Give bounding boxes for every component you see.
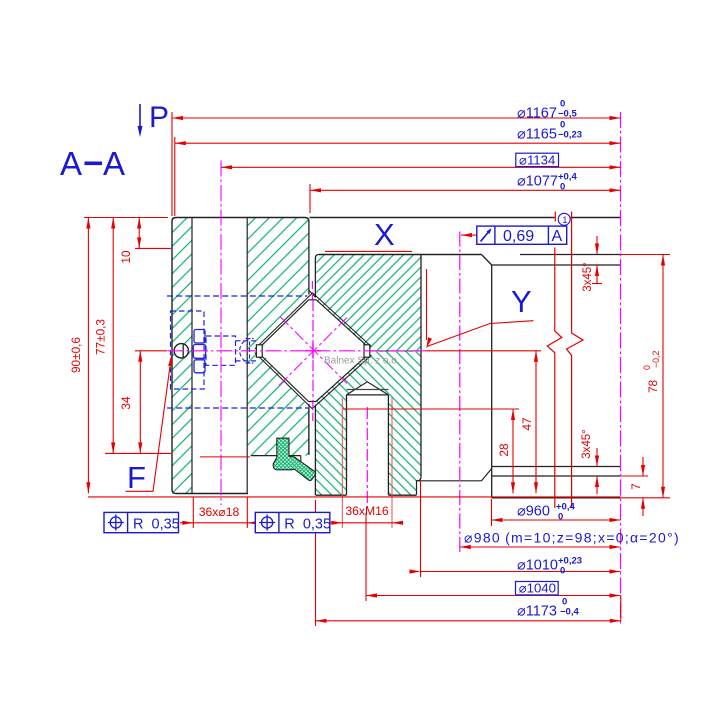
raceway line upper-right [312,293,371,347]
gear rim bottom face [492,497,621,499]
diameter reference centerline right [620,112,622,625]
extension line centerline left [135,350,167,352]
dimension line d1134 [221,166,621,168]
outer ring top face step [319,254,482,256]
svg-text:0,69: 0,69 [503,228,534,245]
M16 hole drill cone [347,382,389,395]
extension line outer ring left edge down [315,500,317,626]
svg-text:−0,4: −0,4 [560,607,579,618]
dimension line d1010 [421,571,621,573]
svg-text:3x45°: 3x45° [581,429,593,459]
roller axis diagonal NE [279,318,347,386]
svg-text:0: 0 [560,182,565,193]
hidden bolt shank bottom line [236,360,259,362]
balloon leader tick [554,212,556,222]
raceway line lower-left [255,353,313,410]
extension lines bolt hole down [192,497,194,528]
M16 thread major line right [391,398,393,528]
runout frame [477,226,567,244]
hidden counterbore line lower [167,407,309,409]
extension line M16 BCD [365,513,367,601]
dimension line 77 [112,218,114,454]
extension line seal OD up [174,137,176,216]
dimension line d960 [492,519,621,521]
svg-text:⌀1077: ⌀1077 [517,174,558,190]
svg-text:⌀980 (m=10;z=98;x=0;α=20°): ⌀980 (m=10;z=98;x=0;α=20°) [464,530,680,546]
leader X underline [325,250,412,252]
balloon item 1 [558,213,570,225]
svg-text:P: P [149,101,169,134]
seal elastomer body [273,438,315,480]
M16 hole wall right [387,395,389,495]
M16 hole chamfer line [347,389,389,391]
grease fitting hex middle (blue) [193,345,205,359]
dimension 3x45 top arrows [596,236,598,255]
svg-text:A: A [60,145,82,182]
svg-text:0: 0 [560,566,565,577]
dimension line d1040 [366,595,621,597]
gear tooth chamfer bottom line [492,475,621,477]
dimension line 36xd18 [180,522,255,524]
svg-text:1: 1 [562,215,567,226]
extension line root circle [491,499,493,526]
roller vertical centerline [312,300,314,402]
svg-text:Y: Y [511,284,532,319]
svg-text:−0,5: −0,5 [558,109,577,120]
inner ring bottom-left corner [172,490,176,494]
position frame left [104,512,179,532]
svg-text:47: 47 [520,417,534,430]
bolt hole wall left [191,218,193,494]
outer ring right edge [420,255,422,477]
hidden bolt shank end line [249,342,251,361]
hidden plug hole arc [240,339,251,364]
outer ring split line [370,350,421,352]
recess bottom line [417,480,482,482]
dimension line d1173 [316,620,621,622]
outer ring left edge lower [314,405,316,496]
svg-text:A: A [103,145,125,182]
roller face upper-left [262,300,309,345]
bottom reference line [88,496,621,498]
hidden counterbore line upper [167,295,308,297]
svg-text:⌀1010: ⌀1010 [517,558,558,574]
M16 hole centerline [366,407,368,508]
raceway line upper-left [255,293,313,349]
svg-text:34: 34 [119,396,133,410]
dimension line d1167 [172,117,621,119]
svg-text:X: X [374,217,395,252]
gear pitch line centerline [459,232,461,553]
roller center mark [305,343,321,359]
extension line step 10 [135,247,171,249]
grease fitting ball [174,344,188,358]
gear rim upper step line right segment [520,254,621,256]
svg-text:0: 0 [558,512,563,523]
leader Y [427,321,534,347]
hidden bolt head rectangle [206,336,236,365]
inner ring right edge lower [308,408,310,455]
roller vertical centerline above [311,281,313,300]
svg-text:36xM16: 36xM16 [345,504,389,518]
dimension 7 arrows [642,457,644,476]
svg-text:⌀1173: ⌀1173 [517,604,557,620]
label d1040 boxed [516,582,559,595]
extension line left face up [171,112,173,216]
hidden spotface rectangle [171,311,205,389]
outer ring upper half hatch [315,255,421,352]
upper ring gap step tick [309,291,315,297]
dimension line 90 [87,218,89,494]
svg-text:⌀1134: ⌀1134 [519,152,555,167]
grease fitting hex upper (blue) [194,330,205,344]
dimension line 34 [139,351,141,454]
M16 thread major line left [341,398,343,528]
dimension 10 arrows [138,218,140,249]
break line left [547,248,562,509]
dimension line d1165 [175,142,621,144]
svg-text:R 0,35: R 0,35 [284,516,331,532]
svg-text:−0,23: −0,23 [558,130,582,141]
outer ring lower half hatch [313,352,421,495]
gear rim foot chamfer [482,469,492,481]
hidden bolt shank top line [236,340,259,342]
main horizontal centerline [168,350,426,352]
svg-text:⌀1165: ⌀1165 [517,127,557,143]
gear tooth chamfer top line [492,466,621,468]
hidden plug hole ticks [246,339,254,364]
position frame right [255,512,329,532]
dimension line d980 [460,546,621,548]
extension line gear top right [621,254,670,256]
svg-text:Balnex Sp. z o.o.: Balnex Sp. z o.o. [324,356,400,367]
inner ring right hatch band with raceway V-groove [247,218,309,456]
label d1134 boxed [516,153,559,166]
outer ring left edge upper [314,258,316,298]
extension line tip circle [420,481,422,577]
outer ring bottom-right corner step [417,477,422,495]
outer ring top-left corner [315,255,319,259]
extension line centerline right [426,350,542,352]
grease fitting stem line [182,344,184,358]
dimension 3x45 bottom arrows [596,448,598,467]
svg-text:A: A [552,228,563,245]
extension line tooth chamfer right [621,475,648,477]
extension line seal area [200,456,250,458]
roller right corner plug [364,345,370,357]
seal groove right wall [300,456,302,469]
roller vertical centerline below [312,402,314,422]
svg-text:⌀960: ⌀960 [517,504,550,520]
extension line gear bottom right [621,497,670,499]
break line right [567,212,584,509]
M16 hole wall left [346,395,348,495]
M16 hole void [347,382,389,495]
svg-text:⌀1167: ⌀1167 [517,106,557,122]
dimension line 78 [662,255,664,498]
outer ring bottom face [316,494,417,496]
svg-text:36x⌀18: 36x⌀18 [199,505,240,519]
dimension line 28 [512,409,514,493]
leader F [126,358,172,492]
raceway line lower-right [312,355,371,409]
roller face lower-left [262,357,308,402]
gear rim left edge [491,265,493,498]
roller face lower-right [316,357,366,402]
inner ring top corners [172,218,309,222]
bolt hole wall right [246,218,248,494]
gear rim shoulder line [492,264,621,266]
leader runout frame [461,234,477,236]
datum arrow P [139,104,141,128]
svg-text:28: 28 [497,443,511,457]
svg-text:78: 78 [646,379,660,393]
svg-text:77±0,3: 77±0,3 [94,319,108,355]
M16 hole cone base line [347,394,389,396]
roller corner flat bottom [309,401,317,403]
extension tail Y vertical [426,269,428,340]
inner ring bottom face [176,493,248,495]
svg-text:−0,2: −0,2 [651,351,661,368]
svg-text:F: F [127,460,146,495]
gear rim top face line [310,217,621,219]
extension line top face left [84,217,168,219]
lower ring gap wall left [308,404,310,455]
dimension line d1077 [310,189,621,191]
svg-text:10: 10 [119,250,133,264]
gear rim X-detail chamfer [482,255,492,266]
grease fitting hex lower (blue) [194,360,205,373]
svg-text:3x45°: 3x45° [582,262,594,292]
extension line 77 bottom [105,452,171,454]
extension line thread depth [343,408,519,410]
roller face upper-right [316,300,366,345]
inner ring top face [176,217,305,219]
inner ring left edge [171,222,173,490]
roller left corner plug [256,345,262,357]
extension line inner ring OD up [309,184,311,213]
svg-text:⌀1040: ⌀1040 [519,581,556,596]
svg-text:R 0,35: R 0,35 [133,516,180,532]
seal groove top edge segments [251,455,301,457]
inner ring left hatch band [172,218,192,494]
svg-text:7: 7 [631,483,643,489]
extension link d1040-d1173 [620,596,622,621]
bolt hole centerline [220,161,222,506]
roller corner flat top [309,299,317,301]
roller axis diagonal SE [280,317,347,384]
dimension line 36xM16 [331,522,400,524]
dimension line 47 [535,351,537,494]
svg-text:90±0,6: 90±0,6 [69,337,83,373]
inner ring right edge upper [308,222,310,295]
